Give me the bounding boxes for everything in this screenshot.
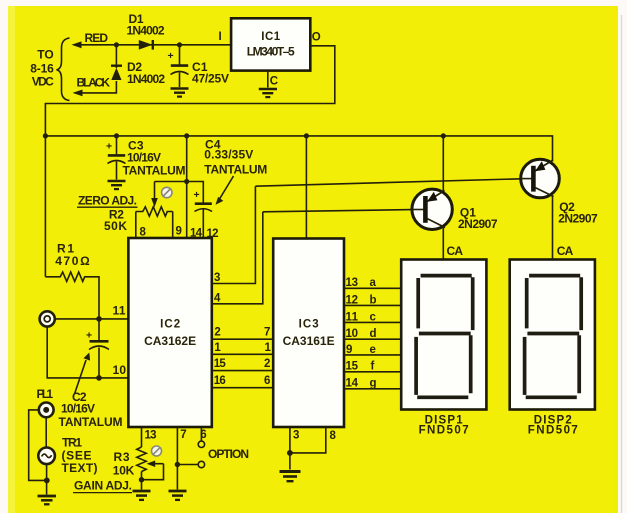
svg-text:I: I (219, 31, 222, 43)
label Q1 2N2907 (458, 206, 498, 231)
svg-text:8: 8 (330, 430, 337, 442)
svg-text:0.33/35V: 0.33/35V (204, 148, 253, 162)
label Q2 2N2907 (558, 200, 598, 225)
op IC3 box (273, 239, 344, 428)
terminal option upper (198, 441, 204, 447)
svg-text:9: 9 (176, 226, 182, 238)
wire link 1-1 (212, 353, 273, 355)
transformer TR1 (38, 448, 55, 465)
transistor Q2 (521, 159, 560, 259)
svg-text:e: e (370, 344, 376, 356)
wire bus to R2 wiper and C4 and pin 14 (155, 136, 204, 238)
wire option link (177, 464, 198, 466)
label C2 10/16V TANTALUM (59, 390, 123, 429)
wire link 2-7 (212, 338, 273, 340)
label D2 1N4002 (127, 60, 165, 86)
svg-text:10/16V: 10/16V (127, 150, 161, 164)
connector PL1 (39, 403, 54, 418)
svg-text:8: 8 (140, 227, 147, 239)
screw R3 (152, 446, 162, 456)
svg-text:CA: CA (557, 244, 574, 258)
display DISP1 segments (416, 276, 473, 398)
label IC1 LM340T-5 (247, 31, 295, 59)
wire pin3 stub (212, 186, 256, 283)
node IC3 ground junction (287, 450, 293, 456)
svg-text:10: 10 (346, 328, 359, 340)
svg-text:PL1: PL1 (37, 387, 54, 401)
svg-text:OPTION: OPTION (208, 447, 249, 461)
svg-text:14: 14 (346, 378, 359, 390)
arrow red (72, 41, 82, 48)
label link pins right (264, 327, 272, 388)
capacitor C2 (86, 319, 109, 378)
node pin10 junction (96, 375, 102, 381)
svg-text:13: 13 (346, 277, 359, 289)
wire jack down to pin10 (47, 327, 128, 378)
capacitor C1 (168, 45, 189, 87)
svg-text:2: 2 (264, 358, 270, 370)
arrow C2 pointer (75, 353, 91, 395)
potentiometer R3 (137, 427, 164, 490)
ground R3 (133, 491, 151, 500)
svg-text:6: 6 (264, 375, 270, 387)
wire pin4 stub (212, 212, 263, 304)
svg-text:15: 15 (214, 358, 227, 370)
svg-text:3: 3 (293, 430, 299, 442)
potentiometer R2 (136, 182, 173, 239)
wire pin7 ground (176, 427, 178, 490)
svg-text:1N4002: 1N4002 (127, 23, 165, 37)
label IC3 CA3161E (283, 319, 335, 349)
node option junction (175, 462, 180, 467)
wire IC3 pin3 ground (289, 427, 291, 470)
svg-text:BLACK: BLACK (77, 76, 111, 90)
svg-text:16: 16 (214, 375, 226, 387)
svg-text:1N4002: 1N4002 (127, 72, 165, 86)
svg-text:50K: 50K (104, 219, 127, 233)
svg-text:TEXT): TEXT) (62, 461, 98, 475)
label IC2 CA3162E (144, 319, 196, 349)
label segment pin numbers (346, 277, 359, 390)
svg-text:+: + (86, 330, 92, 342)
svg-text:IC3: IC3 (299, 319, 319, 331)
diode D2 (111, 45, 122, 80)
node bus IC3 (304, 133, 309, 138)
ground IC3 (280, 472, 301, 482)
wire 5V bus (45, 136, 552, 162)
node bus C3 (114, 133, 119, 138)
svg-text:+: + (168, 50, 174, 62)
display DISP2 box (510, 260, 595, 410)
wire TR1 to ground (46, 464, 48, 494)
node pin11 junction (96, 316, 102, 322)
svg-text:7: 7 (264, 327, 270, 339)
svg-text:8-16: 8-16 (30, 62, 54, 76)
svg-text:1: 1 (214, 342, 221, 354)
svg-text:a: a (370, 277, 377, 289)
svg-text:TANTALUM: TANTALUM (59, 415, 123, 429)
label segment letters (370, 277, 377, 390)
label C4 0.33/35V TANTALUM (204, 138, 267, 177)
svg-text:LM340T–5: LM340T–5 (247, 45, 295, 59)
svg-text:TO: TO (37, 48, 54, 62)
svg-text:10K: 10K (113, 464, 135, 478)
wire RED line (74, 44, 232, 46)
wire link 15-2 (212, 370, 273, 372)
op IC1 regulator box (231, 18, 310, 70)
svg-text:g: g (370, 378, 377, 390)
svg-text:11: 11 (346, 311, 359, 323)
svg-text:TANTALUM: TANTALUM (204, 163, 267, 177)
svg-text:TANTALUM: TANTALUM (123, 163, 186, 177)
capacitor C3 (106, 136, 126, 180)
svg-text:2N2907: 2N2907 (558, 211, 598, 225)
svg-text:12: 12 (207, 228, 219, 240)
wire link 16-6 (212, 387, 273, 389)
wire Q2 base line (255, 179, 521, 186)
diode D1 (139, 40, 153, 50)
svg-text:CA3162E: CA3162E (144, 334, 196, 348)
label DISP2 FND507 (528, 415, 578, 437)
label ZERO ADJ (77, 193, 138, 207)
svg-text:4: 4 (214, 293, 221, 305)
ground IC1 (259, 89, 277, 97)
transistor Q1 (412, 136, 452, 260)
svg-text:f: f (371, 361, 375, 373)
svg-text:15: 15 (346, 361, 359, 373)
svg-text:10: 10 (113, 363, 127, 377)
node bus R2C4 (184, 133, 189, 138)
svg-text:3: 3 (214, 272, 220, 284)
node wiper junction (184, 179, 189, 184)
arrow C4 pointer (216, 176, 234, 205)
op IC2 box (128, 238, 211, 427)
node junction C1/RED (177, 42, 182, 47)
svg-text:7: 7 (180, 429, 186, 441)
svg-text:13: 13 (145, 430, 157, 442)
svg-text:GAIN ADJ.: GAIN ADJ. (74, 479, 132, 493)
svg-text:c: c (370, 311, 377, 323)
svg-text:+: + (106, 141, 112, 153)
svg-text:C: C (270, 76, 278, 88)
resistor R1 (45, 136, 99, 319)
label TO 8-16 VDC (30, 48, 54, 89)
svg-text:TR1: TR1 (62, 436, 82, 450)
wire PL1 left branch (29, 410, 47, 481)
svg-text:2: 2 (214, 327, 220, 339)
svg-text:2N2907: 2N2907 (458, 217, 498, 231)
display DISP2 segments (525, 276, 582, 398)
svg-text:CA3161E: CA3161E (283, 334, 335, 348)
svg-text:14: 14 (190, 228, 203, 240)
node bus Q1 (441, 133, 446, 138)
svg-text:R3: R3 (114, 450, 130, 464)
ground TR1 (38, 496, 57, 504)
svg-text:47/25V: 47/25V (192, 72, 229, 86)
svg-text:9: 9 (346, 344, 352, 356)
svg-text:IC2: IC2 (160, 319, 180, 331)
screw R2 (162, 187, 172, 197)
svg-text:11: 11 (113, 304, 126, 318)
svg-text:b: b (370, 294, 377, 306)
wire segment rows a-g (344, 288, 401, 389)
ground pin7 (169, 491, 187, 500)
label R1 470ohm (55, 241, 90, 267)
node PL1 ground junction (44, 478, 50, 484)
label C1 47/25V (192, 60, 229, 86)
capacitor C4 (194, 189, 213, 238)
wire Q1 base line (263, 210, 412, 212)
node bus left (43, 133, 48, 138)
svg-text:10/16V: 10/16V (61, 401, 95, 415)
ground C1 (171, 89, 189, 97)
svg-text:1: 1 (265, 342, 272, 354)
svg-text:470Ω: 470Ω (55, 254, 90, 268)
wire PL1 to TR1 (45, 417, 47, 447)
display DISP1 box (401, 260, 486, 410)
svg-text:VDC: VDC (32, 75, 54, 89)
wire IC1 C to ground (267, 71, 269, 88)
terminal option lower (198, 461, 204, 467)
node R3 junction (139, 477, 144, 482)
svg-text:CA: CA (447, 244, 464, 258)
label DISP1 FND507 (419, 415, 469, 437)
arrow black (73, 90, 83, 97)
svg-text:+: + (194, 189, 200, 201)
label link pins left (214, 327, 227, 388)
svg-text:IC1: IC1 (261, 31, 281, 43)
label TR1 SEE TEXT (62, 436, 98, 475)
svg-text:12: 12 (346, 294, 359, 306)
wire IC3 supply (305, 136, 307, 239)
svg-text:O: O (312, 31, 321, 43)
jack input terminal (40, 311, 55, 326)
wire BLACK line (75, 81, 116, 93)
label C3 10/16V TANTALUM (123, 139, 186, 178)
svg-text:d: d (370, 328, 377, 340)
svg-text:RED: RED (85, 31, 109, 45)
wire jack to pin11 (55, 318, 128, 320)
ground C3 (108, 181, 126, 189)
label R2 50K (104, 208, 127, 233)
wire IC3 pin8 (290, 427, 326, 453)
label D1 1N4002 (127, 12, 165, 38)
wire IC1 output to bus1 (45, 46, 334, 136)
svg-text:ZERO ADJ.: ZERO ADJ. (78, 193, 137, 207)
wire pin6 stub (200, 427, 202, 441)
label R3 10K (113, 450, 135, 477)
brace input (57, 38, 70, 101)
node junction D2/RED (114, 42, 119, 47)
label GAIN ADJ (73, 479, 132, 493)
